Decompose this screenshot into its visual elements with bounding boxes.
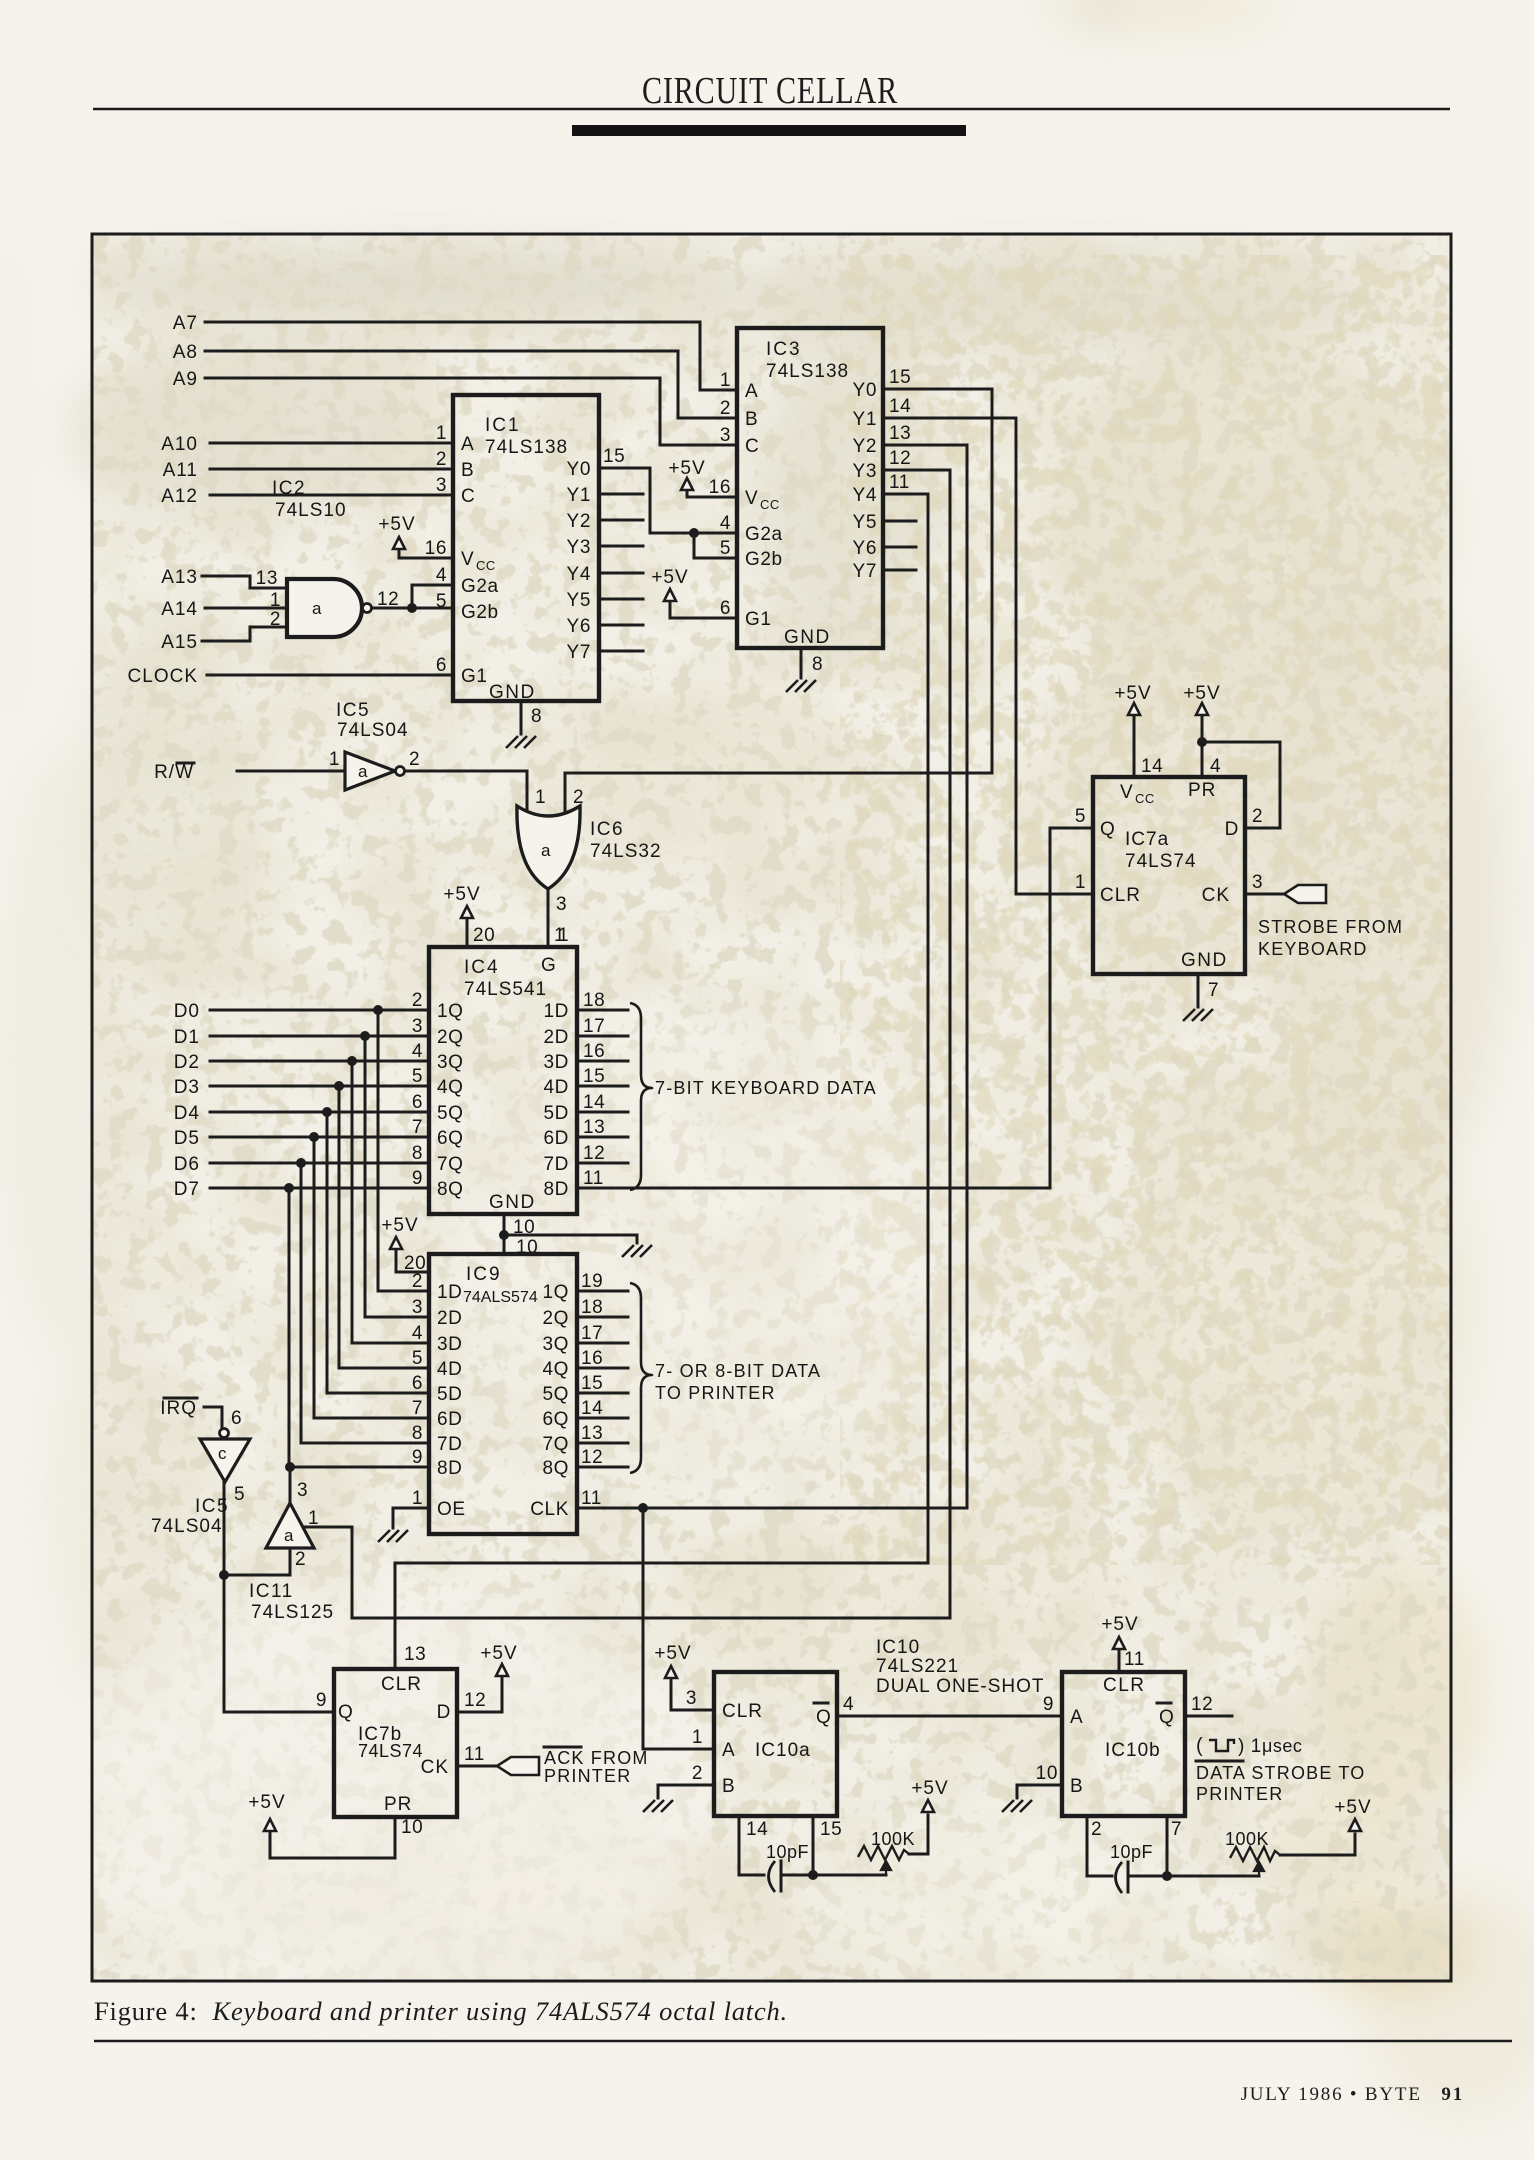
svg-text:Q: Q: [816, 1707, 831, 1728]
svg-text:7D: 7D: [437, 1434, 463, 1455]
svg-text:Y4: Y4: [567, 564, 591, 585]
svg-text:IC10b: IC10b: [1105, 1740, 1161, 1761]
svg-text:CC: CC: [760, 497, 780, 512]
svg-text:7: 7: [1208, 980, 1219, 1001]
svg-text:A11: A11: [163, 460, 198, 481]
svg-text:(: (: [1196, 1735, 1203, 1757]
svg-text:+5V: +5V: [480, 1643, 517, 1664]
svg-text:a: a: [284, 1526, 294, 1545]
svg-text:Y7: Y7: [567, 642, 591, 663]
svg-text:+5V: +5V: [248, 1792, 285, 1813]
svg-text:+5V: +5V: [911, 1778, 948, 1799]
svg-text:74LS221: 74LS221: [876, 1656, 959, 1677]
svg-text:16: 16: [583, 1041, 605, 1062]
svg-text:Y0: Y0: [567, 459, 591, 480]
svg-text:6Q: 6Q: [437, 1128, 464, 1149]
svg-text:CLR: CLR: [1100, 885, 1141, 906]
svg-text:18: 18: [583, 990, 605, 1011]
svg-text:G1: G1: [461, 666, 488, 687]
svg-text:a: a: [541, 841, 551, 860]
svg-text:Y2: Y2: [853, 436, 877, 457]
svg-text:GND: GND: [1181, 950, 1228, 971]
svg-text:16: 16: [581, 1348, 603, 1369]
svg-text:5: 5: [436, 591, 447, 612]
svg-text:14: 14: [1141, 756, 1163, 777]
svg-text:8Q: 8Q: [542, 1458, 569, 1479]
svg-text:OE: OE: [437, 1499, 466, 1520]
svg-text:TO PRINTER: TO PRINTER: [655, 1383, 776, 1403]
svg-text:CLOCK: CLOCK: [128, 666, 198, 687]
svg-text:10: 10: [1036, 1763, 1058, 1784]
svg-text:1: 1: [554, 925, 565, 946]
svg-text:Y3: Y3: [567, 537, 591, 558]
svg-text:3D: 3D: [437, 1334, 463, 1355]
svg-text:12: 12: [377, 589, 399, 610]
svg-text:Y5: Y5: [567, 590, 591, 611]
svg-text:74LS32: 74LS32: [590, 841, 662, 862]
svg-text:5: 5: [1075, 806, 1086, 827]
svg-text:GND: GND: [784, 627, 831, 648]
svg-text:A13: A13: [161, 567, 198, 588]
svg-text:11: 11: [581, 1488, 602, 1509]
svg-text:1: 1: [535, 787, 546, 808]
svg-text:8D: 8D: [437, 1458, 463, 1479]
svg-text:1: 1: [308, 1508, 319, 1529]
svg-text:9: 9: [412, 1447, 423, 1468]
svg-text:10pF: 10pF: [766, 1842, 809, 1862]
svg-text:Y6: Y6: [853, 538, 877, 559]
svg-text:2: 2: [412, 990, 423, 1011]
svg-text:7: 7: [1171, 1819, 1182, 1840]
svg-text:PRINTER: PRINTER: [1196, 1784, 1283, 1804]
svg-text:IC3: IC3: [766, 339, 802, 360]
svg-text:3: 3: [436, 475, 447, 496]
svg-text:8: 8: [812, 654, 823, 675]
svg-text:9: 9: [316, 1690, 327, 1711]
svg-text:A12: A12: [161, 486, 198, 507]
svg-text:7: 7: [412, 1117, 423, 1138]
svg-text:D: D: [437, 1702, 451, 1723]
svg-text:11: 11: [464, 1744, 485, 1765]
svg-text:2Q: 2Q: [542, 1308, 569, 1329]
svg-text:11: 11: [889, 472, 910, 493]
svg-text:+5V: +5V: [1334, 1797, 1371, 1818]
svg-text:5Q: 5Q: [437, 1103, 464, 1124]
svg-text:1: 1: [436, 423, 447, 444]
svg-text:+5V: +5V: [651, 567, 688, 588]
svg-text:1: 1: [329, 749, 340, 770]
svg-text:2: 2: [270, 609, 281, 630]
svg-text:7Q: 7Q: [437, 1154, 464, 1175]
svg-text:2: 2: [409, 749, 420, 770]
svg-text:19: 19: [581, 1271, 603, 1292]
svg-text:7Q: 7Q: [542, 1434, 569, 1455]
svg-text:IC4: IC4: [464, 957, 500, 978]
svg-text:+5V: +5V: [381, 1215, 418, 1236]
svg-text:3Q: 3Q: [542, 1334, 569, 1355]
svg-text:A: A: [745, 381, 758, 402]
svg-text:Y1: Y1: [853, 409, 877, 430]
svg-text:Y6: Y6: [567, 616, 591, 637]
svg-text:A: A: [1070, 1707, 1083, 1728]
svg-text:C: C: [745, 436, 759, 457]
svg-text:G1: G1: [745, 609, 772, 630]
svg-text:C: C: [461, 486, 475, 507]
svg-text:JULY 1986 • BYTE 91: JULY 1986 • BYTE 91: [1241, 2084, 1464, 2105]
svg-text:+5V: +5V: [668, 458, 705, 479]
svg-text:4: 4: [412, 1323, 423, 1344]
svg-text:20: 20: [404, 1253, 426, 1274]
svg-text:B: B: [1070, 1776, 1083, 1797]
svg-text:74LS125: 74LS125: [251, 1602, 334, 1623]
svg-text:1D: 1D: [544, 1001, 570, 1022]
svg-text:9: 9: [412, 1168, 423, 1189]
svg-text:4: 4: [720, 513, 731, 534]
svg-text:4Q: 4Q: [437, 1077, 464, 1098]
svg-text:17: 17: [583, 1016, 605, 1037]
svg-text:74LS10: 74LS10: [275, 500, 347, 521]
svg-text:74LS541: 74LS541: [464, 979, 547, 1000]
svg-text:ACK FROM: ACK FROM: [544, 1748, 649, 1768]
svg-text:Y3: Y3: [853, 461, 877, 482]
svg-text:100K: 100K: [871, 1829, 915, 1849]
svg-text:1: 1: [1075, 872, 1086, 893]
svg-text:1: 1: [720, 370, 731, 391]
svg-text:D7: D7: [174, 1179, 200, 1200]
svg-text:KEYBOARD: KEYBOARD: [1258, 939, 1368, 959]
svg-text:Q: Q: [338, 1702, 353, 1723]
svg-text:DUAL ONE-SHOT: DUAL ONE-SHOT: [876, 1676, 1045, 1697]
svg-text:2: 2: [295, 1549, 306, 1570]
svg-text:PR: PR: [1188, 780, 1216, 801]
svg-text:2: 2: [573, 787, 584, 808]
svg-text:14: 14: [583, 1092, 605, 1113]
svg-text:A14: A14: [161, 599, 198, 620]
svg-text:6D: 6D: [437, 1409, 463, 1430]
svg-text:15: 15: [889, 367, 911, 388]
svg-text:15: 15: [603, 446, 625, 467]
svg-text:3: 3: [686, 1688, 697, 1709]
svg-text:Y4: Y4: [853, 485, 877, 506]
svg-text:A10: A10: [161, 434, 198, 455]
svg-text:100K: 100K: [1225, 1829, 1269, 1849]
svg-text:B: B: [461, 460, 474, 481]
svg-text:2: 2: [720, 398, 731, 419]
svg-text:IC10a: IC10a: [755, 1740, 811, 1761]
svg-text:CLR: CLR: [722, 1701, 763, 1722]
svg-text:9: 9: [1043, 1694, 1054, 1715]
svg-text:4: 4: [843, 1694, 854, 1715]
svg-text:Y7: Y7: [853, 561, 877, 582]
svg-text:1: 1: [692, 1727, 703, 1748]
svg-text:IC1: IC1: [485, 415, 521, 436]
svg-text:μsec: μsec: [1262, 1736, 1302, 1756]
svg-text:B: B: [722, 1776, 735, 1797]
svg-text:D2: D2: [174, 1052, 200, 1073]
svg-text:4: 4: [436, 565, 447, 586]
svg-text:20: 20: [473, 925, 495, 946]
svg-text:4D: 4D: [544, 1077, 570, 1098]
svg-text:3D: 3D: [544, 1052, 570, 1073]
svg-text:3: 3: [412, 1297, 423, 1318]
svg-text:74LS138: 74LS138: [485, 437, 568, 458]
svg-text:CC: CC: [476, 558, 496, 573]
svg-text:5D: 5D: [544, 1103, 570, 1124]
svg-text:3: 3: [412, 1016, 423, 1037]
svg-text:IRQ: IRQ: [160, 1398, 197, 1419]
svg-text:6Q: 6Q: [542, 1409, 569, 1430]
svg-text:R/W: R/W: [154, 762, 194, 783]
svg-text:14: 14: [889, 396, 911, 417]
svg-text:10: 10: [516, 1237, 538, 1258]
svg-text:2D: 2D: [544, 1027, 570, 1048]
svg-text:5: 5: [412, 1348, 423, 1369]
svg-text:4: 4: [1210, 756, 1221, 777]
svg-text:14: 14: [746, 1819, 768, 1840]
svg-text:74LS74: 74LS74: [358, 1741, 423, 1761]
svg-text:D0: D0: [174, 1001, 200, 1022]
svg-text:c: c: [218, 1444, 227, 1463]
svg-text:IC9: IC9: [466, 1264, 502, 1285]
svg-text:a: a: [358, 762, 368, 781]
svg-text:V: V: [1120, 782, 1133, 803]
svg-text:PRINTER: PRINTER: [544, 1766, 631, 1786]
svg-text:3Q: 3Q: [437, 1052, 464, 1073]
svg-text:2: 2: [1252, 806, 1263, 827]
svg-text:IC7a: IC7a: [1125, 829, 1169, 850]
svg-text:A: A: [722, 1740, 735, 1761]
svg-text:1: 1: [412, 1488, 423, 1509]
svg-text:PR: PR: [384, 1794, 412, 1815]
svg-text:IC5: IC5: [336, 700, 370, 721]
svg-text:8Q: 8Q: [437, 1179, 464, 1200]
svg-text:V: V: [461, 549, 474, 570]
svg-text:7: 7: [412, 1398, 423, 1419]
svg-text:13: 13: [256, 568, 278, 589]
svg-text:13: 13: [889, 423, 911, 444]
svg-text:G2b: G2b: [745, 549, 783, 570]
svg-text:A: A: [461, 434, 474, 455]
svg-text:3: 3: [1252, 872, 1263, 893]
svg-text:Y1: Y1: [567, 485, 591, 506]
svg-text:10pF: 10pF: [1110, 1842, 1153, 1862]
svg-text:16: 16: [709, 477, 731, 498]
svg-text:1: 1: [270, 590, 281, 611]
svg-text:5: 5: [234, 1484, 245, 1505]
svg-text:14: 14: [581, 1398, 603, 1419]
svg-text:12: 12: [1191, 1694, 1213, 1715]
svg-text:11: 11: [1124, 1649, 1145, 1670]
svg-text:CIRCUIT CELLAR: CIRCUIT CELLAR: [642, 70, 898, 112]
svg-text:IC11: IC11: [249, 1581, 294, 1602]
svg-text:5Q: 5Q: [542, 1384, 569, 1405]
svg-text:G2a: G2a: [461, 576, 499, 597]
svg-text:15: 15: [581, 1373, 603, 1394]
svg-text:D5: D5: [174, 1128, 200, 1149]
svg-text:+5V: +5V: [443, 884, 480, 905]
svg-text:Q: Q: [1100, 819, 1115, 840]
svg-text:DATA STROBE TO: DATA STROBE TO: [1196, 1763, 1366, 1783]
svg-text:A15: A15: [161, 632, 198, 653]
svg-text:V: V: [745, 488, 758, 509]
svg-text:CK: CK: [1202, 885, 1230, 906]
svg-text:18: 18: [581, 1297, 603, 1318]
svg-text:2: 2: [1091, 1819, 1102, 1840]
svg-text:11: 11: [583, 1168, 604, 1189]
svg-text:6: 6: [412, 1373, 423, 1394]
svg-text:CLR: CLR: [381, 1674, 422, 1695]
svg-text:6: 6: [231, 1408, 242, 1429]
svg-text:6: 6: [412, 1092, 423, 1113]
svg-text:7D: 7D: [544, 1154, 570, 1175]
svg-text:8: 8: [412, 1143, 423, 1164]
svg-text:a: a: [312, 599, 322, 618]
svg-text:7- OR 8-BIT DATA: 7- OR 8-BIT DATA: [655, 1361, 821, 1381]
svg-text:6: 6: [720, 598, 731, 619]
svg-text:) 1: ) 1: [1238, 1736, 1262, 1757]
svg-text:4D: 4D: [437, 1359, 463, 1380]
svg-text:15: 15: [820, 1819, 842, 1840]
svg-text:CLK: CLK: [530, 1499, 569, 1520]
svg-text:2: 2: [412, 1271, 423, 1292]
svg-text:D4: D4: [174, 1103, 200, 1124]
svg-text:Figure 4: Keyboard and print: Figure 4: Keyboard and printer using 74A…: [94, 1996, 788, 2026]
svg-text:D1: D1: [174, 1027, 200, 1048]
svg-text:4: 4: [412, 1041, 423, 1062]
svg-text:D: D: [1225, 819, 1239, 840]
svg-text:STROBE FROM: STROBE FROM: [1258, 917, 1403, 937]
svg-text:+5V: +5V: [1101, 1614, 1138, 1635]
svg-text:+5V: +5V: [1114, 683, 1151, 704]
svg-text:5: 5: [412, 1066, 423, 1087]
svg-text:13: 13: [581, 1423, 603, 1444]
svg-text:A9: A9: [173, 369, 198, 390]
svg-text:15: 15: [583, 1066, 605, 1087]
svg-text:74LS74: 74LS74: [1125, 851, 1197, 872]
svg-text:2D: 2D: [437, 1308, 463, 1329]
svg-text:A7: A7: [173, 313, 198, 334]
svg-text:2Q: 2Q: [437, 1027, 464, 1048]
svg-text:13: 13: [583, 1117, 605, 1138]
svg-text:IC2: IC2: [272, 478, 306, 499]
svg-text:D6: D6: [174, 1154, 200, 1175]
svg-text:Y5: Y5: [853, 512, 877, 533]
svg-text:12: 12: [889, 448, 911, 469]
svg-text:3: 3: [297, 1480, 308, 1501]
svg-text:5: 5: [720, 538, 731, 559]
svg-text:CC: CC: [1135, 791, 1155, 806]
svg-text:16: 16: [425, 538, 447, 559]
svg-text:17: 17: [581, 1323, 603, 1344]
svg-text:+5V: +5V: [378, 514, 415, 535]
svg-text:12: 12: [583, 1143, 605, 1164]
svg-text:4Q: 4Q: [542, 1359, 569, 1380]
svg-text:A8: A8: [173, 342, 198, 363]
svg-text:2: 2: [436, 449, 447, 470]
svg-text:2: 2: [692, 1763, 703, 1784]
svg-text:3: 3: [556, 894, 567, 915]
svg-text:CK: CK: [421, 1757, 449, 1778]
svg-text:10: 10: [513, 1217, 535, 1238]
svg-text:G2b: G2b: [461, 602, 499, 623]
svg-text:13: 13: [404, 1644, 426, 1665]
svg-text:74LS04: 74LS04: [151, 1516, 223, 1537]
svg-text:G: G: [541, 955, 556, 976]
svg-text:1Q: 1Q: [542, 1282, 569, 1303]
svg-text:Q: Q: [1159, 1707, 1174, 1728]
svg-text:D3: D3: [174, 1077, 200, 1098]
svg-text:8: 8: [412, 1423, 423, 1444]
svg-text:74LS138: 74LS138: [766, 361, 849, 382]
svg-text:6: 6: [436, 655, 447, 676]
svg-text:B: B: [745, 409, 758, 430]
svg-text:GND: GND: [489, 682, 536, 703]
svg-text:1D: 1D: [437, 1282, 463, 1303]
svg-text:8D: 8D: [544, 1179, 570, 1200]
svg-text:6D: 6D: [544, 1128, 570, 1149]
svg-text:74LS04: 74LS04: [337, 720, 409, 741]
svg-text:Y2: Y2: [567, 511, 591, 532]
svg-text:CLR: CLR: [1103, 1675, 1146, 1696]
svg-text:1Q: 1Q: [437, 1001, 464, 1022]
svg-text:+5V: +5V: [1183, 683, 1220, 704]
svg-text:12: 12: [581, 1447, 603, 1468]
svg-text:Y0: Y0: [853, 380, 877, 401]
svg-text:IC6: IC6: [590, 819, 624, 840]
svg-text:IC5: IC5: [195, 1496, 229, 1517]
svg-text:+5V: +5V: [654, 1643, 691, 1664]
svg-text:10: 10: [401, 1817, 423, 1838]
svg-text:8: 8: [531, 706, 542, 727]
svg-text:GND: GND: [489, 1192, 536, 1213]
svg-text:IC10: IC10: [876, 1637, 920, 1658]
svg-text:3: 3: [720, 425, 731, 446]
svg-text:G2a: G2a: [745, 524, 783, 545]
svg-text:74ALS574: 74ALS574: [463, 1289, 538, 1306]
svg-text:5D: 5D: [437, 1384, 463, 1405]
svg-text:12: 12: [464, 1690, 486, 1711]
svg-text:7-BIT KEYBOARD DATA: 7-BIT KEYBOARD DATA: [655, 1078, 877, 1098]
